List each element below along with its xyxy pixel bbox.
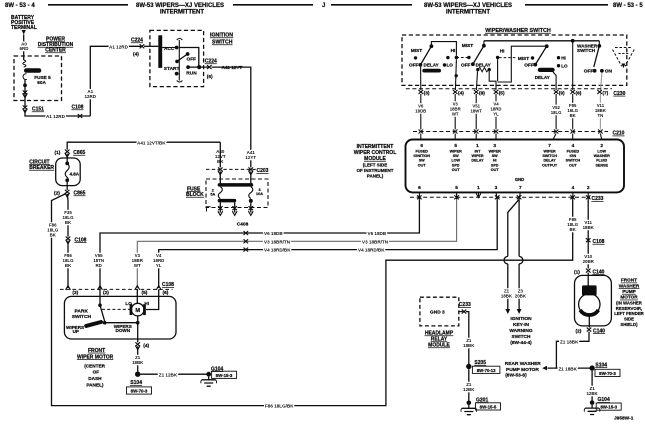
- connector C108 wiper motor: [60, 282, 174, 296]
- svg-text:RUN: RUN: [186, 70, 197, 76]
- rear washer pump motor label: [505, 361, 542, 378]
- svg-text:SHIELD): SHIELD): [620, 322, 638, 327]
- svg-text:C108: C108: [593, 239, 605, 245]
- label A0 6RD: [19, 41, 29, 51]
- wire pin 3 drop: [420, 67, 422, 90]
- svg-text:V6 18DB: V6 18DB: [368, 231, 387, 236]
- svg-text:FUSED: FUSED: [567, 150, 580, 154]
- svg-text:12BK: 12BK: [463, 387, 475, 392]
- fusible link squiggle: [23, 60, 26, 67]
- svg-text:(IN WASHER: (IN WASHER: [616, 300, 643, 305]
- svg-text:F86 18LG/BK: F86 18LG/BK: [265, 404, 294, 409]
- svg-text:18BK: 18BK: [583, 225, 595, 230]
- wire washer ON to pin 7: [601, 73, 602, 90]
- svg-text:C151: C151: [32, 107, 44, 113]
- svg-text:SWITCH: SWITCH: [512, 334, 531, 340]
- label V51 18WT pin8: [470, 104, 482, 114]
- svg-text:10A: 10A: [256, 192, 263, 196]
- svg-text:REAR WASHER: REAR WASHER: [505, 361, 542, 367]
- connector mark in PDC: [23, 90, 28, 94]
- wire motor ground: [137, 316, 139, 342]
- label A1 12RD riser: [85, 89, 97, 99]
- ignition switch box: [150, 30, 204, 86]
- svg-text:C224: C224: [131, 38, 143, 44]
- svg-text:IGNITION: IGNITION: [414, 154, 431, 158]
- wire A40 into fuse block: [219, 142, 221, 167]
- svg-text:8W-15-3: 8W-15-3: [600, 405, 617, 410]
- svg-text:MIST: MIST: [411, 48, 423, 54]
- svg-text:C210: C210: [613, 131, 625, 137]
- svg-text:CENTER: CENTER: [45, 48, 66, 54]
- svg-text:SIDE: SIDE: [624, 317, 634, 322]
- connector C224 left: [140, 44, 145, 48]
- fuse block feed stubs: [219, 171, 221, 183]
- wiper washer switch box: [402, 35, 627, 85]
- svg-text:IGNITION: IGNITION: [210, 33, 233, 39]
- svg-text:WIPER: WIPER: [489, 150, 501, 154]
- wire Z1 18BK pump to S104: [556, 332, 589, 369]
- svg-text:(4): (4): [143, 343, 149, 349]
- svg-text:C108: C108: [72, 105, 84, 111]
- svg-text:C108: C108: [162, 282, 174, 288]
- svg-text:1: 1: [476, 143, 479, 149]
- label V11 18BK TN pin7: [595, 103, 607, 118]
- svg-text:MODULE: MODULE: [428, 343, 450, 349]
- svg-text:BK: BK: [570, 113, 577, 118]
- svg-text:8W-70-3: 8W-70-3: [131, 389, 148, 394]
- label F86 18LG BK stack left: [47, 223, 59, 238]
- svg-text:MIST: MIST: [462, 43, 474, 49]
- svg-text:LOW: LOW: [451, 159, 460, 163]
- fuse 2 element: [218, 187, 222, 199]
- svg-text:DELAY: DELAY: [471, 159, 484, 163]
- svg-text:C140: C140: [593, 328, 605, 334]
- svg-text:18LG: 18LG: [551, 110, 562, 115]
- module pin numbers bottom: [418, 185, 590, 191]
- svg-text:C108: C108: [75, 237, 87, 243]
- wire V11 18BK module pin 2 down: [587, 199, 589, 268]
- svg-text:6: 6: [418, 185, 421, 191]
- headlamp relay module label: [425, 331, 454, 349]
- wire V3 18BR module pin5 to motor pin5: [137, 199, 456, 288]
- connector C151: [23, 106, 28, 110]
- wire A0 6RD battery to PDC: [23, 35, 25, 60]
- wire V4 18RD module pin3 to motor pin6: [159, 199, 498, 288]
- svg-text:20BR: 20BR: [583, 259, 595, 264]
- label V55 18TN RD stack: [93, 253, 104, 268]
- svg-text:OFF: OFF: [584, 68, 594, 74]
- svg-text:M: M: [135, 308, 140, 314]
- svg-text:12RD: 12RD: [85, 94, 97, 99]
- svg-text:OFF: OFF: [461, 62, 471, 68]
- intermittent wiper control module box: [406, 140, 625, 193]
- svg-text:(8): (8): [479, 91, 485, 97]
- svg-text:(8W-53-8): (8W-53-8): [505, 372, 527, 378]
- svg-text:J: J: [322, 3, 325, 9]
- svg-text:(3): (3): [72, 290, 78, 296]
- svg-text:HI: HI: [144, 301, 149, 306]
- wipers up contact bar: [86, 322, 101, 326]
- svg-text:SWITCH: SWITCH: [72, 314, 92, 320]
- svg-text:8W-15-3: 8W-15-3: [216, 373, 233, 378]
- svg-text:5: 5: [455, 185, 458, 191]
- front wiper motor label: [77, 348, 114, 388]
- svg-text:PUMP MOTOR: PUMP MOTOR: [506, 367, 539, 373]
- svg-text:12YT: 12YT: [245, 155, 256, 160]
- svg-text:DELAY: DELAY: [476, 62, 491, 67]
- wire Z1 18BK module pin 7 left branch: [508, 199, 519, 309]
- svg-text:OFF: OFF: [524, 62, 534, 68]
- label Z3 20BK: [515, 289, 527, 299]
- svg-text:IGN: IGN: [570, 154, 577, 158]
- svg-text:8W-70-13: 8W-70-13: [477, 368, 496, 373]
- breaker element: [65, 162, 69, 166]
- svg-text:(6): (6): [576, 91, 582, 97]
- wire A1 12RD lower run: [25, 110, 90, 117]
- svg-text:KEY-IN: KEY-IN: [513, 322, 530, 328]
- ignition key line: [177, 38, 183, 82]
- hop Z1 over F86: [504, 256, 508, 264]
- connector C210 row: [413, 130, 625, 137]
- svg-text:7: 7: [519, 185, 522, 191]
- wire S2 mid dot to pin 5: [497, 59, 499, 81]
- ground G201: [467, 401, 472, 406]
- fuse C hook: [23, 74, 27, 80]
- wire A1 12RD riser: [90, 46, 142, 116]
- svg-text:WIPER MOTOR: WIPER MOTOR: [77, 354, 114, 360]
- svg-text:(4): (4): [133, 52, 139, 58]
- ignition switch connector bar: [158, 35, 162, 68]
- wire A41 12VT/BK breaker feed: [67, 142, 220, 149]
- wire A41 ignition to fuse block: [212, 67, 251, 167]
- svg-text:4: 4: [572, 143, 575, 149]
- wire delay resistor to pin 8: [476, 71, 477, 90]
- fuse block output connector marks: [207, 207, 211, 212]
- washer switch: [577, 41, 613, 75]
- park switch: [72, 303, 131, 324]
- circuit breaker label: [29, 159, 54, 171]
- svg-text:(5): (5): [499, 91, 505, 97]
- svg-text:C865: C865: [74, 191, 86, 197]
- svg-text:FRONT: FRONT: [621, 278, 637, 283]
- svg-text:V4 18RD/BK: V4 18RD/BK: [358, 248, 385, 253]
- svg-text:BLOCK: BLOCK: [186, 192, 204, 198]
- fuse 5 60A element bar: [24, 68, 41, 73]
- svg-text:YL: YL: [156, 263, 162, 268]
- svg-text:INTERMITTENT: INTERMITTENT: [446, 10, 490, 16]
- svg-text:S205: S205: [474, 360, 486, 366]
- intermittent wiper control module label: [354, 144, 397, 179]
- svg-text:(8W-44-4): (8W-44-4): [510, 340, 532, 346]
- svg-text:OUT: OUT: [452, 168, 461, 172]
- svg-text:WT: WT: [134, 263, 141, 268]
- svg-text:SPD: SPD: [452, 163, 460, 167]
- battery feed arrow: [22, 30, 26, 35]
- svg-text:C865: C865: [73, 150, 85, 156]
- svg-text:WIPER/WASHER SWITCH: WIPER/WASHER SWITCH: [485, 28, 551, 34]
- svg-text:C203: C203: [257, 168, 269, 174]
- svg-text:PUMP: PUMP: [622, 289, 636, 294]
- header left page title: [5, 3, 313, 16]
- svg-text:4.8A: 4.8A: [70, 172, 80, 177]
- fuse block box: [206, 179, 268, 208]
- connector C865 pin 2: [66, 182, 68, 190]
- svg-text:DELAY: DELAY: [544, 159, 557, 163]
- wire pin 6 riser through switch: [572, 41, 574, 90]
- svg-text:6RD: 6RD: [19, 46, 29, 51]
- svg-text:(2): (2): [54, 191, 60, 197]
- circuit breaker box: [66, 154, 68, 163]
- svg-text:LO: LO: [561, 64, 568, 69]
- fuse 5 60A label: [34, 75, 51, 85]
- switch section 2: [455, 41, 505, 72]
- label F85 16LG BK pin6: [567, 103, 578, 118]
- svg-text:3: 3: [495, 185, 498, 191]
- power distribution center box: [14, 56, 62, 101]
- svg-text:(4): (4): [458, 91, 464, 97]
- switch section 1: [409, 44, 456, 70]
- svg-text:V6 18DB: V6 18DB: [264, 231, 283, 236]
- fuse block bus bar: [218, 183, 254, 187]
- svg-text:A1 12RD: A1 12RD: [109, 45, 129, 50]
- svg-text:G104: G104: [598, 397, 610, 403]
- svg-text:WIPER: WIPER: [450, 150, 462, 154]
- svg-text:ON: ON: [605, 68, 613, 74]
- svg-text:3: 3: [493, 143, 496, 149]
- ignition switch label: [210, 33, 233, 46]
- svg-text:(5): (5): [142, 290, 148, 296]
- svg-text:C233: C233: [459, 302, 471, 308]
- svg-text:MIST: MIST: [518, 56, 530, 62]
- label V10 20BR: [583, 254, 595, 264]
- svg-text:MOTOR: MOTOR: [620, 295, 638, 300]
- module pin numbers top: [420, 143, 603, 149]
- svg-text:V3 18BR/TN: V3 18BR/TN: [362, 239, 389, 244]
- svg-text:LEFT FENDER: LEFT FENDER: [614, 311, 644, 316]
- connector C230 row: [406, 89, 626, 97]
- svg-text:WIPER: WIPER: [471, 154, 483, 158]
- svg-text:YL: YL: [493, 112, 499, 117]
- svg-text:HI: HI: [451, 48, 456, 54]
- wire Z1 18BK motor to S104: [137, 346, 139, 372]
- svg-text:DASH: DASH: [88, 376, 102, 381]
- svg-text:C230: C230: [613, 91, 625, 97]
- splice S104: [135, 372, 140, 377]
- svg-text:HI: HI: [500, 48, 505, 53]
- wire Z3 20BK module pin 7 right branch: [518, 199, 520, 309]
- svg-text:(7): (7): [602, 91, 608, 97]
- wire Z1 12BK to G104: [140, 373, 206, 375]
- svg-text:5: 5: [454, 143, 457, 149]
- svg-text:RESERVOIR,: RESERVOIR,: [616, 306, 642, 311]
- svg-text:UP: UP: [73, 329, 79, 334]
- label F86 18LG BK stack 2: [63, 253, 75, 268]
- svg-text:J958W-1: J958W-1: [614, 416, 634, 422]
- svg-text:FRONT: FRONT: [88, 348, 105, 354]
- module pin function labels: [414, 150, 611, 172]
- ground G104 right: [590, 400, 595, 405]
- connector C140 pin 1: [586, 269, 591, 273]
- svg-text:PARK: PARK: [75, 308, 89, 314]
- connector C108 splice on V11: [586, 238, 591, 242]
- svg-text:HI: HI: [493, 159, 497, 163]
- svg-text:Z1 18BK: Z1 18BK: [559, 366, 578, 371]
- svg-text:A41 12VT/BK: A41 12VT/BK: [137, 140, 166, 145]
- svg-text:18BK: 18BK: [132, 360, 144, 365]
- svg-text:8W-15-5: 8W-15-5: [480, 404, 497, 409]
- svg-text:8W-53 WIPERS—XJ VEHICLES: 8W-53 WIPERS—XJ VEHICLES: [136, 3, 224, 9]
- wire ACC to RUN node: [179, 48, 199, 68]
- junction dot under fuse: [23, 83, 27, 87]
- svg-text:4: 4: [572, 185, 575, 191]
- svg-text:60A: 60A: [37, 80, 46, 85]
- svg-text:OF: OF: [93, 370, 100, 375]
- svg-text:S104: S104: [595, 362, 607, 368]
- label V6 18DB pin3: [415, 104, 426, 114]
- label V3 18BR WT stack: [132, 253, 144, 268]
- connector C233 row: [410, 192, 604, 202]
- label A41 12YT stack: [245, 150, 256, 160]
- wire switch rail S1 to S2: [431, 42, 456, 56]
- svg-text:18BK: 18BK: [501, 294, 513, 299]
- svg-text:(CENTER: (CENTER: [84, 363, 105, 368]
- label V4 18RD YL stack: [153, 253, 164, 268]
- svg-text:8W - 53 - 5: 8W - 53 - 5: [613, 3, 643, 9]
- connector C408 splice on V3: [244, 239, 249, 243]
- svg-text:OFF: OFF: [409, 63, 419, 69]
- svg-text:18WT: 18WT: [470, 109, 482, 114]
- svg-text:FLUID: FLUID: [596, 159, 607, 163]
- svg-text:BREAKER: BREAKER: [29, 165, 54, 171]
- fuse block label: [186, 186, 204, 198]
- washer pump motor: [579, 273, 600, 328]
- svg-text:2: 2: [587, 185, 590, 191]
- svg-text:SENSE: SENSE: [595, 163, 608, 167]
- wires switch to C210: [421, 94, 601, 129]
- svg-text:(9): (9): [559, 91, 565, 97]
- svg-text:HI: HI: [561, 56, 566, 61]
- svg-text:V3 18BR/TN: V3 18BR/TN: [264, 239, 291, 244]
- svg-text:BK: BK: [65, 263, 72, 268]
- fuse block outputs: [219, 202, 221, 212]
- terminal OFF with arm: [175, 60, 179, 64]
- wire F86 18LG/BK long loop to module pin 4: [52, 194, 573, 406]
- connector C140 pin 2: [587, 328, 592, 332]
- svg-text:SWITCH: SWITCH: [212, 40, 233, 46]
- svg-text:Z1 12BK: Z1 12BK: [159, 372, 178, 377]
- label F85 18LG BK right stack: [567, 217, 579, 232]
- svg-text:8W-53 WIPERS—XJ VEHICLES: 8W-53 WIPERS—XJ VEHICLES: [424, 3, 512, 9]
- svg-text:(3): (3): [424, 91, 430, 97]
- svg-text:OF INSTRUMENT: OF INSTRUMENT: [357, 168, 394, 173]
- connector C108 on F86: [66, 237, 71, 241]
- svg-text:(6): (6): [207, 74, 213, 80]
- wire Z1 18BK headlamp to S205: [466, 312, 469, 364]
- switch top rail: [484, 40, 599, 42]
- svg-text:IGNITION: IGNITION: [510, 316, 532, 322]
- ground G104 left: [206, 372, 211, 377]
- svg-text:MODULE: MODULE: [364, 156, 386, 162]
- svg-text:6: 6: [420, 143, 423, 149]
- svg-text:C233: C233: [592, 196, 604, 202]
- label V52 18LG pin9: [551, 105, 562, 115]
- svg-text:PANEL): PANEL): [367, 174, 384, 179]
- svg-text:TN: TN: [598, 113, 604, 118]
- wire Z1 18BK rear washer run: [548, 367, 593, 369]
- wire delay bar to pin 9: [553, 72, 556, 90]
- svg-text:SPD: SPD: [491, 163, 499, 167]
- svg-text:LO: LO: [447, 63, 454, 68]
- power distribution center label: [38, 37, 74, 54]
- svg-text:(6): (6): [163, 290, 169, 296]
- svg-text:WIPER: WIPER: [544, 150, 556, 154]
- svg-text:S104: S104: [130, 380, 142, 386]
- connector C408 splice on V4: [244, 248, 249, 252]
- svg-text:7: 7: [548, 143, 551, 149]
- module top stubs: [421, 134, 602, 140]
- svg-text:5A: 5A: [210, 193, 215, 197]
- svg-text:SWITCH: SWITCH: [566, 159, 581, 163]
- header right page title: [322, 3, 643, 16]
- wire S2 column to pin 4: [455, 59, 456, 90]
- switch section 3: [498, 44, 568, 82]
- connector C224 right: [207, 65, 212, 69]
- svg-text:(1): (1): [55, 150, 61, 156]
- svg-text:(LEFT SIDE: (LEFT SIDE: [363, 163, 388, 168]
- wire F35 18LG/BK breaker to C108: [66, 194, 69, 237]
- wire V6 18DB module pin6 to motor branch: [100, 199, 419, 305]
- svg-text:ACC: ACC: [164, 46, 175, 52]
- svg-text:Z1 18BK: Z1 18BK: [560, 339, 579, 344]
- svg-text:V4 18RD/BK: V4 18RD/BK: [264, 248, 291, 253]
- connector C108 splice on A1: [78, 114, 83, 118]
- svg-text:WARNING: WARNING: [509, 328, 532, 334]
- label V4 18RD YL pin5: [491, 102, 502, 117]
- fuse 3 output dot: [249, 199, 253, 203]
- terminal RUN: [186, 65, 190, 69]
- connector C233 headlamp: [459, 311, 463, 313]
- svg-text:OUT: OUT: [418, 163, 427, 167]
- svg-text:12BK: 12BK: [586, 391, 598, 396]
- svg-text:SW: SW: [453, 154, 459, 158]
- svg-text:8W - 53 - 4: 8W - 53 - 4: [5, 3, 35, 9]
- svg-text:SW: SW: [492, 154, 498, 158]
- svg-text:OFF: OFF: [187, 56, 197, 62]
- svg-text:C140: C140: [593, 269, 605, 275]
- svg-text:SWITCH: SWITCH: [577, 48, 596, 53]
- front wiper motor box: [64, 296, 176, 339]
- svg-text:20BK: 20BK: [515, 294, 527, 299]
- washer nozzle symbol: [613, 48, 635, 69]
- svg-text:DELAY: DELAY: [424, 63, 439, 68]
- wire Z1 12BK to G201: [468, 369, 470, 400]
- battery positive terminal label: [11, 15, 37, 31]
- svg-text:(1): (1): [574, 269, 580, 275]
- splice S104 right: [589, 365, 594, 370]
- svg-text:DOWN: DOWN: [116, 328, 131, 333]
- svg-text:LO: LO: [125, 301, 132, 306]
- svg-text:START: START: [164, 66, 180, 72]
- svg-text:WASHER: WASHER: [619, 283, 640, 288]
- splice S205: [466, 364, 471, 369]
- front washer pump motor label: [614, 278, 644, 327]
- svg-text:BK: BK: [65, 220, 72, 225]
- svg-text:INTERMITTENT: INTERMITTENT: [160, 10, 204, 16]
- connector C408 splice on V6: [244, 231, 249, 235]
- svg-text:OUT: OUT: [569, 163, 578, 167]
- wire motor HI from pin 6: [146, 289, 159, 309]
- svg-text:PANEL): PANEL): [86, 382, 104, 387]
